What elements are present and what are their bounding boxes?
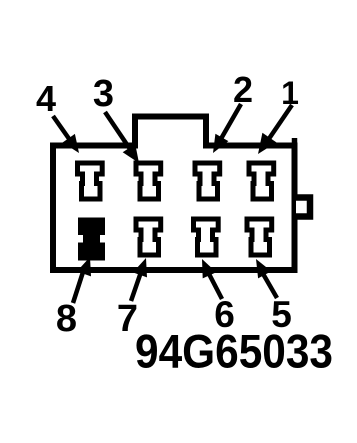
terminal cavity 5 (bottom row, rightmost) <box>247 219 272 255</box>
leader arrow from label 3 to terminal 3 <box>105 112 139 163</box>
leader arrow from label 4 to terminal 4 <box>53 116 79 153</box>
terminal cavity 3 (top row, second) <box>136 163 161 199</box>
right side lock tab <box>296 198 310 217</box>
terminal cavity 7 (bottom row, second) <box>136 219 161 255</box>
connector body outline with top keying tab <box>53 117 295 271</box>
svg-text:4: 4 <box>36 78 56 119</box>
svg-text:2: 2 <box>233 69 253 110</box>
leader arrow from label 2 to terminal 2 <box>213 104 241 153</box>
svg-text:1: 1 <box>281 75 299 111</box>
svg-text:3: 3 <box>93 73 114 115</box>
terminal cavity 8 (bottom row, leftmost; highlighted solid black) <box>78 218 105 261</box>
leader arrow from label 8 to terminal 8 <box>73 257 91 303</box>
terminal cavity 2 (top row, third) <box>195 163 220 199</box>
terminal cavity 6 (bottom row, third) <box>194 219 219 255</box>
leader arrow from label 1 to terminal 1 <box>258 105 292 154</box>
svg-text:94G65033: 94G65033 <box>135 325 333 378</box>
svg-text:8: 8 <box>56 298 77 340</box>
terminal cavity 1 (top row, rightmost) <box>249 163 274 199</box>
corner stub at top-right of body <box>292 138 298 145</box>
leader arrow from label 7 to terminal 7 <box>131 258 147 301</box>
leader arrow from label 6 to terminal 6 <box>202 259 222 299</box>
terminal cavity 4 (top row, leftmost) <box>78 163 103 199</box>
leader arrow from label 5 to terminal 5 <box>256 259 277 298</box>
